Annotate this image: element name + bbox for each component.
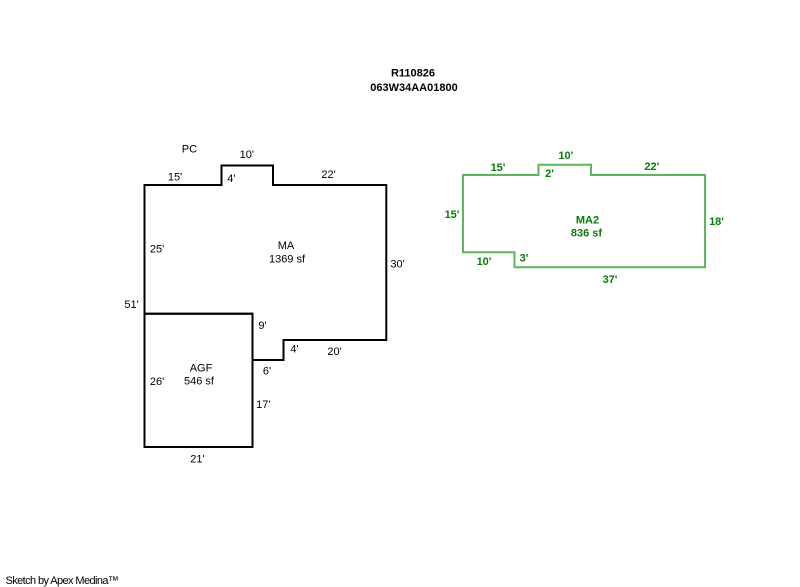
svg-text:51': 51' — [124, 299, 138, 311]
svg-text:R110826: R110826 — [391, 68, 435, 80]
svg-text:836 sf: 836 sf — [571, 228, 603, 240]
svg-text:37': 37' — [603, 274, 618, 286]
area MA2 outline (green second area polygon) — [463, 165, 705, 268]
svg-text:26': 26' — [150, 376, 164, 388]
svg-text:063W34AA01800: 063W34AA01800 — [370, 82, 457, 94]
svg-text:4': 4' — [227, 173, 235, 185]
svg-text:15': 15' — [445, 209, 460, 221]
svg-text:20': 20' — [327, 346, 341, 358]
svg-text:AGF: AGF — [190, 363, 213, 375]
svg-text:10': 10' — [240, 149, 254, 161]
svg-text:4': 4' — [290, 343, 298, 355]
svg-text:15': 15' — [168, 172, 182, 184]
svg-text:546 sf: 546 sf — [184, 376, 215, 388]
svg-text:25': 25' — [150, 244, 164, 256]
svg-text:22': 22' — [321, 169, 335, 181]
area MA outline (black main area polygon) — [145, 166, 387, 361]
svg-text:PC: PC — [182, 144, 197, 156]
svg-text:10': 10' — [477, 256, 492, 268]
svg-text:15': 15' — [491, 162, 506, 174]
svg-text:10': 10' — [558, 150, 573, 162]
svg-text:17': 17' — [256, 399, 270, 411]
svg-text:21': 21' — [190, 454, 204, 466]
svg-text:9': 9' — [258, 320, 266, 332]
svg-text:Sketch by Apex Medina™: Sketch by Apex Medina™ — [6, 575, 119, 587]
svg-text:22': 22' — [644, 161, 659, 173]
area AGF outline (black garage rectangle) — [145, 314, 253, 447]
svg-text:MA: MA — [278, 240, 295, 252]
svg-text:6': 6' — [263, 366, 271, 378]
svg-text:MA2: MA2 — [576, 215, 599, 227]
svg-text:18': 18' — [709, 216, 724, 228]
svg-text:2': 2' — [545, 168, 554, 180]
svg-text:3': 3' — [520, 253, 529, 265]
svg-text:1369 sf: 1369 sf — [269, 254, 306, 266]
svg-text:30': 30' — [390, 259, 404, 271]
